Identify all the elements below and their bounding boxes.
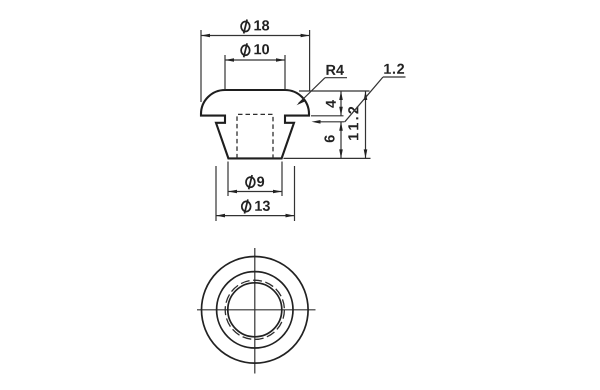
dim phi10 arrow right — [276, 58, 285, 62]
dim 11.2 text — [348, 107, 358, 140]
groove bottom extension line with leader arrow — [315, 121, 345, 123]
dim phi18 line — [201, 35, 310, 37]
dim 6 text — [324, 135, 334, 142]
hidden hole (dashed) — [237, 114, 273, 158]
label R4 text — [326, 65, 343, 75]
bottom view circle phi13 — [217, 272, 293, 348]
dim phi13 extension left — [215, 166, 217, 221]
dim phi13 extension right — [294, 166, 296, 221]
dim phi10 extension right — [284, 55, 286, 90]
bottom view inner circle phi9 — [228, 283, 282, 337]
grommet cross-section outline — [201, 90, 309, 158]
bottom view centerline vertical — [254, 248, 256, 374]
dim phi18 text — [254, 20, 269, 30]
label R4 leader — [299, 78, 326, 104]
dim phi10 symbol — [241, 43, 250, 57]
label 1.2 underline — [383, 76, 406, 78]
dim 6 arrow top — [339, 122, 343, 131]
label R4 leader arrowhead — [297, 99, 306, 106]
dim phi18 symbol — [241, 20, 250, 34]
dim phi9 extension left — [227, 162, 229, 197]
dim phi13 symbol — [242, 199, 251, 213]
dim phi10 arrow left — [225, 58, 234, 62]
dim 11.2 arrow top — [364, 91, 368, 100]
dim phi10 line — [225, 59, 285, 61]
dim phi9 symbol — [246, 175, 255, 189]
dim 6 arrow bottom — [339, 149, 343, 158]
dim 11.2 arrow bottom — [364, 149, 368, 158]
label 1.2 text — [384, 64, 404, 74]
dim 4 arrow bottom — [339, 107, 343, 116]
groove top extension line — [311, 115, 344, 117]
dim phi18 arrow left — [201, 34, 210, 38]
bottom view hidden circle phi10 (dashed) — [225, 280, 284, 339]
bottom view outer circle phi18 — [202, 257, 309, 364]
dim phi18 arrow right — [301, 34, 310, 38]
dim phi18 extension right — [309, 30, 311, 91]
dim phi9 arrow left — [228, 190, 237, 194]
height bottom extension line — [284, 157, 371, 159]
dim 11.2 line — [365, 91, 367, 158]
dim phi9 line — [228, 191, 282, 193]
dim 4 arrow top — [339, 91, 343, 100]
label R4 underline — [325, 77, 347, 79]
dim phi13 arrow left — [216, 214, 225, 218]
bottom view centerline horizontal — [197, 309, 316, 311]
dim phi13 line — [216, 215, 295, 217]
dim phi9 text — [257, 176, 264, 186]
dim phi10 extension left — [224, 55, 226, 90]
dim phi9 extension right — [281, 162, 283, 197]
dim phi13 text — [255, 201, 270, 211]
dim phi9 arrow right — [273, 190, 282, 194]
dim phi18 extension left — [200, 30, 202, 102]
dim 6 line — [340, 122, 342, 159]
dim phi10 text — [254, 44, 269, 54]
dim 4 text — [326, 100, 336, 108]
dim 4 line — [340, 91, 342, 116]
dim phi13 arrow right — [286, 214, 295, 218]
label 1.2 leader diagonal — [345, 77, 383, 122]
height top extension line — [299, 90, 370, 92]
